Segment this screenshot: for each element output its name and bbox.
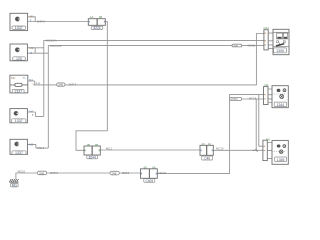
wire box4 jog to feeder: [27, 112, 43, 116]
svg-text:MC18: MC18: [248, 44, 256, 48]
svg-text:2NR 9: 2NR 9: [68, 83, 76, 87]
svg-text:1344: 1344: [277, 103, 285, 107]
svg-text:2N8: 2N8: [58, 83, 63, 87]
svg-text:MC1: MC1: [106, 147, 112, 151]
fuse box 1337 third-left: [10, 75, 28, 93]
connector pair 8224 top-center: [88, 15, 105, 30]
svg-text:M2: M2: [30, 46, 34, 50]
svg-text:B: B: [30, 51, 32, 55]
lamp unit 1345 lower-right: [272, 140, 288, 164]
connector pins fuse box: [28, 78, 41, 85]
svg-text:T1: T1: [22, 76, 26, 80]
svg-text:2N8: 2N8: [39, 171, 44, 175]
svg-text:2N8: 2N8: [112, 171, 117, 175]
wire horn1 to connector B24: [35, 21, 88, 23]
svg-text:MC10: MC10: [122, 171, 130, 175]
svg-text:MC10 A: MC10 A: [46, 39, 57, 43]
wire pair 8244 to pair C40: [100, 149, 200, 151]
svg-text:8244: 8244: [89, 155, 96, 159]
svg-text:MC33: MC33: [159, 171, 167, 175]
wire B24 right side down-loop to pair 8244: [76, 22, 107, 151]
wire box5 to feeder: [27, 144, 48, 148]
svg-text:MC: MC: [11, 76, 15, 80]
connector pins horn1: [28, 14, 46, 23]
connector strip NA lower-right: [263, 137, 272, 160]
connector pair C405 bottom-center: [141, 166, 167, 183]
lamp unit 1344 mid-right: [272, 86, 288, 108]
svg-text:120: 120: [16, 57, 22, 61]
wire vertical mid-to-lower A: [255, 99, 257, 150]
connector strip CA1 top-right: [264, 26, 274, 50]
svg-text:M5: M5: [29, 142, 33, 146]
svg-text:2NR 9: 2NR 9: [50, 171, 58, 175]
inline connector oval on mid lamp wire: [230, 97, 257, 101]
connector pair C40 bottom-right: [200, 142, 224, 160]
svg-text:6A: 6A: [144, 166, 148, 170]
junction marks on lower wire: [253, 149, 258, 152]
svg-text:1B: 1B: [87, 143, 91, 147]
wire fuse box3 to top-right pin A: [33, 34, 264, 85]
svg-text:1300: 1300: [276, 49, 284, 53]
svg-text:1B: 1B: [99, 15, 103, 19]
svg-text:CA1: CA1: [264, 26, 270, 30]
svg-text:1337: 1337: [15, 26, 23, 30]
svg-text:1337: 1337: [14, 90, 22, 94]
connector pins horn2: [30, 46, 36, 55]
connector pins horn5: [29, 142, 44, 150]
ground MC10 symbol: [9, 179, 18, 187]
wire pair C40 to lower strip: [213, 149, 263, 151]
wire ground bus right riser: [157, 95, 263, 174]
switch unit 1300 top-right: [273, 29, 289, 54]
horn 1337 fourth-left: [10, 109, 28, 124]
wire bus line 1 (MC10A): [44, 40, 264, 116]
svg-text:NA: NA: [265, 83, 269, 87]
svg-text:1345: 1345: [277, 158, 285, 162]
connector pair 8244 bottom-left: [84, 143, 112, 160]
svg-text:1337: 1337: [15, 119, 23, 123]
svg-text:C405: C405: [145, 179, 153, 183]
svg-text:P R: P R: [36, 81, 40, 85]
svg-text:1A: 1A: [90, 15, 94, 19]
svg-text:10: 10: [202, 142, 206, 146]
horn 1337 top-left: [10, 13, 28, 30]
svg-text:MC10 B: MC10 B: [51, 44, 62, 48]
svg-text:10: 10: [208, 142, 212, 146]
svg-text:NA: NA: [266, 137, 270, 141]
inline connector oval ground bus 1: [37, 171, 58, 176]
wire oval to mid lamp strip: [242, 98, 264, 100]
svg-text:1337: 1337: [15, 151, 23, 155]
inline connector oval on fuse wire: [57, 83, 77, 87]
connector pins horn4: [29, 109, 34, 117]
svg-text:8224: 8224: [93, 26, 100, 30]
svg-text:1B: 1B: [95, 143, 99, 147]
svg-text:MC10: MC10: [216, 147, 224, 151]
svg-text:M4: M4: [29, 109, 33, 113]
connector strip NA mid-right: [264, 83, 273, 104]
svg-text:r: r: [33, 82, 34, 86]
svg-text:6A: 6A: [152, 166, 156, 170]
svg-text:MC18: MC18: [249, 97, 257, 101]
svg-text:2NR6: 2NR6: [231, 97, 238, 101]
horn 1337 fifth-left: [10, 139, 27, 155]
svg-text:MA: MA: [29, 78, 33, 82]
svg-text:MG: MG: [12, 183, 18, 187]
wire ground bus left: [16, 173, 141, 179]
svg-text:MC 1: MC 1: [38, 146, 45, 150]
horn 120 second-left: [10, 44, 27, 61]
svg-text:MC10: MC10: [18, 169, 26, 173]
wire vertical mid-to-lower B: [259, 95, 263, 147]
svg-text:C40: C40: [204, 156, 210, 160]
svg-text:2N6: 2N6: [233, 45, 238, 48]
inline connector oval on bus line 2: [232, 44, 256, 49]
wire bus line 2 with vertical feeder: [48, 46, 264, 149]
svg-text:2NR 9: 2NR 9: [37, 20, 45, 24]
inline connector oval ground bus 2: [110, 171, 130, 175]
